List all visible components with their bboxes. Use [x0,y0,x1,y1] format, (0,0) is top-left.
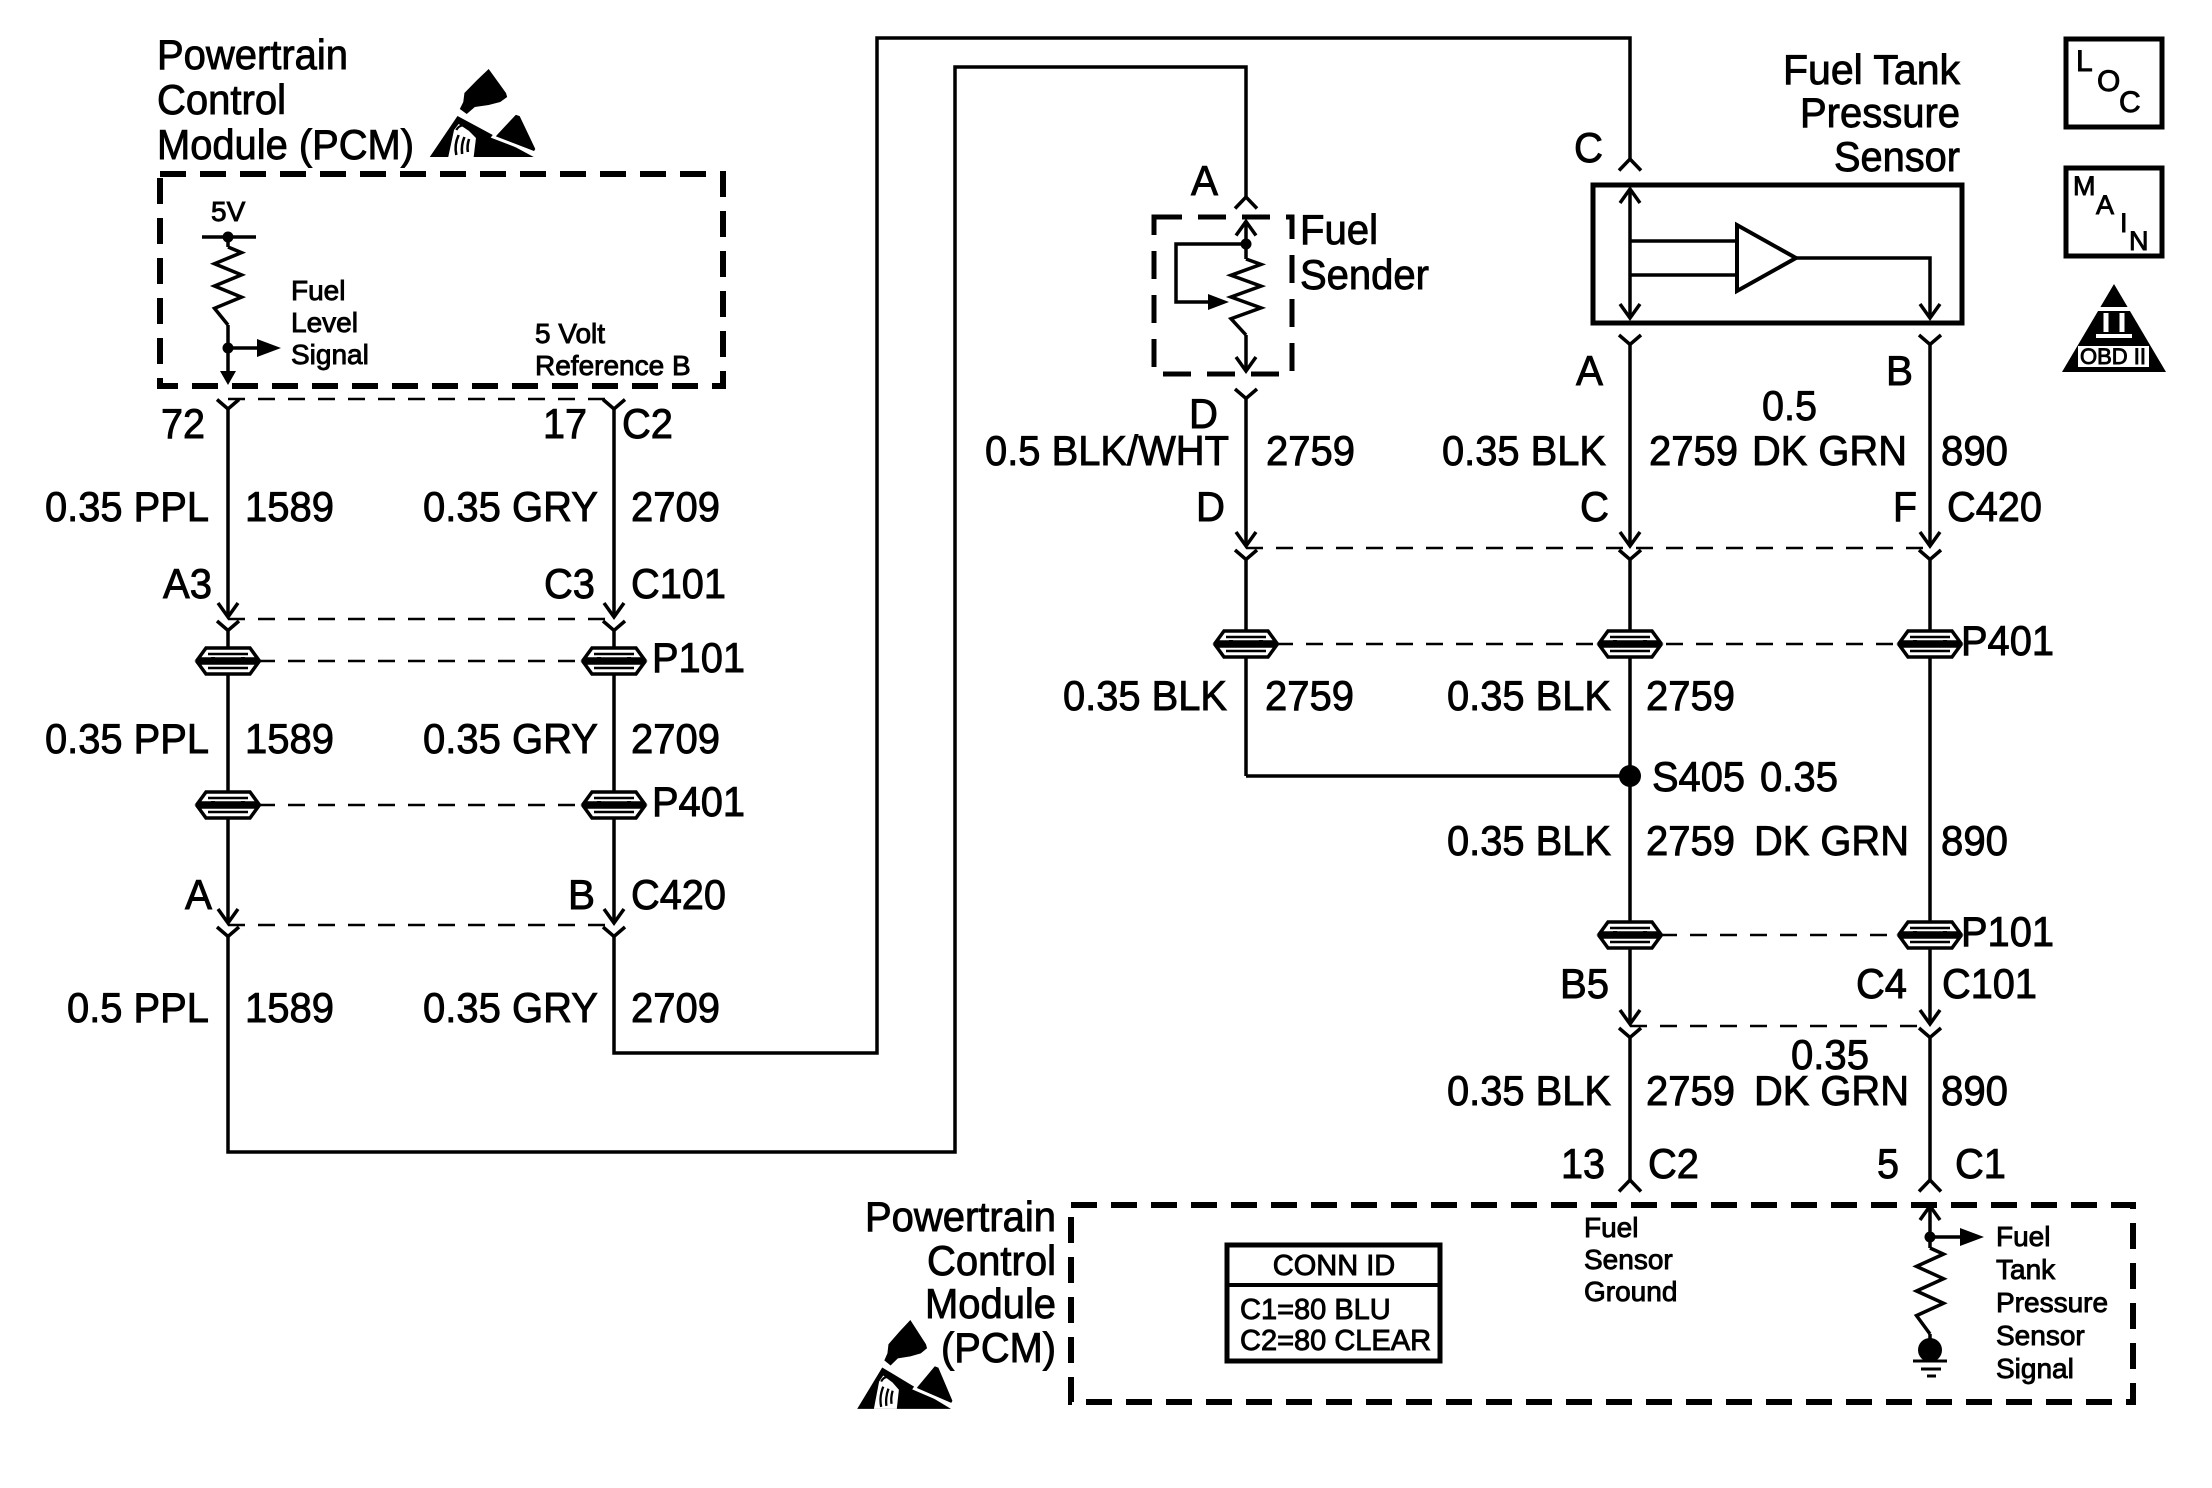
svg-text:B: B [1886,347,1913,394]
svg-text:0.35 GRY: 0.35 GRY [423,483,598,530]
svg-text:Powertrain: Powertrain [157,31,348,78]
svg-text:C1=80 BLU: C1=80 BLU [1240,1294,1391,1326]
svg-text:72: 72 [161,400,205,447]
svg-text:Sensor: Sensor [1584,1244,1673,1275]
svg-text:CONN ID: CONN ID [1273,1250,1395,1282]
svg-text:Pressure: Pressure [1996,1287,2108,1318]
svg-text:B5: B5 [1560,960,1609,1007]
svg-text:Fuel Tank: Fuel Tank [1783,46,1961,93]
svg-text:P401: P401 [1961,617,2054,664]
svg-text:1589: 1589 [245,483,334,530]
svg-text:2759: 2759 [1649,427,1738,474]
svg-text:Fuel: Fuel [291,275,345,306]
svg-text:O: O [2097,65,2120,98]
svg-text:P101: P101 [652,634,745,681]
svg-text:C2: C2 [622,400,673,447]
svg-text:0.35 BLK: 0.35 BLK [1442,427,1606,474]
svg-text:890: 890 [1941,817,2008,864]
svg-text:Module: Module [925,1280,1056,1327]
svg-text:890: 890 [1941,427,2008,474]
svg-text:5: 5 [1877,1140,1899,1187]
svg-text:A3: A3 [163,560,212,607]
svg-text:S405: S405 [1652,753,1745,800]
svg-text:C2=80 CLEAR: C2=80 CLEAR [1240,1325,1431,1357]
svg-text:17: 17 [543,400,587,447]
svg-text:Signal: Signal [1996,1353,2074,1384]
svg-text:F: F [1893,483,1917,530]
svg-text:13: 13 [1561,1140,1605,1187]
svg-text:B: B [568,871,595,918]
svg-text:I: I [2120,208,2128,238]
svg-text:2759: 2759 [1266,427,1355,474]
svg-text:C: C [1574,124,1603,171]
svg-text:0.5: 0.5 [1762,382,1817,429]
svg-text:Sender: Sender [1300,251,1429,298]
svg-text:C101: C101 [631,560,726,607]
svg-text:1589: 1589 [245,984,334,1031]
svg-text:2759: 2759 [1265,672,1354,719]
svg-text:DK GRN: DK GRN [1754,1067,1909,1114]
svg-text:Reference B: Reference B [535,350,691,381]
svg-text:C: C [1580,483,1609,530]
svg-text:Tank: Tank [1996,1254,2056,1285]
svg-text:2759: 2759 [1646,672,1735,719]
svg-text:0.35 BLK: 0.35 BLK [1447,817,1611,864]
svg-text:C101: C101 [1942,960,2037,1007]
svg-text:0.5 BLK/WHT: 0.5 BLK/WHT [985,427,1229,474]
svg-text:Ground: Ground [1584,1276,1677,1307]
svg-text:DK GRN: DK GRN [1754,817,1909,864]
svg-text:1589: 1589 [245,715,334,762]
svg-text:A: A [2096,190,2114,220]
svg-text:Sensor: Sensor [1996,1320,2085,1351]
svg-text:(PCM): (PCM) [941,1324,1056,1371]
svg-text:L: L [2076,45,2093,78]
svg-text:C4: C4 [1856,960,1907,1007]
svg-text:Signal: Signal [291,339,369,370]
svg-text:A: A [185,871,212,918]
svg-text:C2: C2 [1648,1140,1699,1187]
svg-text:Powertrain: Powertrain [865,1193,1056,1240]
svg-text:A: A [1191,157,1218,204]
svg-text:C420: C420 [1947,483,2042,530]
svg-text:Pressure: Pressure [1800,89,1960,136]
svg-text:0.35 GRY: 0.35 GRY [423,984,598,1031]
svg-text:0.5 PPL: 0.5 PPL [67,984,209,1031]
svg-text:0.35: 0.35 [1760,753,1838,800]
svg-text:0.35 BLK: 0.35 BLK [1447,1067,1611,1114]
svg-text:2709: 2709 [631,483,720,530]
svg-text:M: M [2073,171,2096,201]
svg-text:C420: C420 [631,871,726,918]
svg-text:5V: 5V [211,196,246,227]
svg-text:Control: Control [157,76,286,123]
svg-text:890: 890 [1941,1067,2008,1114]
svg-text:5 Volt: 5 Volt [535,318,605,349]
svg-text:C1: C1 [1955,1140,2006,1187]
svg-text:Fuel: Fuel [1584,1212,1638,1243]
svg-text:Fuel: Fuel [1996,1221,2050,1252]
svg-text:2709: 2709 [631,715,720,762]
svg-text:2759: 2759 [1646,817,1735,864]
svg-text:0.35 PPL: 0.35 PPL [45,483,209,530]
svg-text:D: D [1196,483,1225,530]
svg-text:C: C [2119,86,2141,119]
svg-text:Fuel: Fuel [1300,206,1378,253]
svg-text:0.35 GRY: 0.35 GRY [423,715,598,762]
svg-text:A: A [1576,347,1603,394]
svg-text:C3: C3 [544,560,595,607]
svg-text:DK GRN: DK GRN [1752,427,1907,474]
svg-text:N: N [2129,226,2149,256]
svg-text:0.35 BLK: 0.35 BLK [1063,672,1227,719]
svg-text:0.35 PPL: 0.35 PPL [45,715,209,762]
svg-text:OBD II: OBD II [2080,344,2146,369]
svg-text:2709: 2709 [631,984,720,1031]
svg-text:2759: 2759 [1646,1067,1735,1114]
svg-text:Level: Level [291,307,358,338]
svg-text:Control: Control [927,1237,1056,1284]
svg-text:Module (PCM): Module (PCM) [157,121,414,168]
svg-text:P401: P401 [652,778,745,825]
svg-text:0.35 BLK: 0.35 BLK [1447,672,1611,719]
svg-text:P101: P101 [1961,908,2054,955]
svg-text:Sensor: Sensor [1834,133,1960,180]
